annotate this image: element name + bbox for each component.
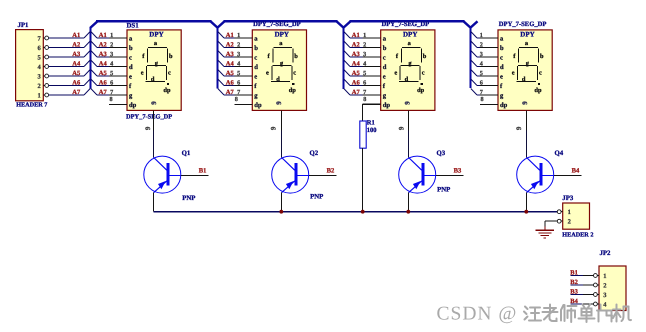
svg-text:6: 6 bbox=[237, 79, 240, 86]
svg-text:A2: A2 bbox=[226, 41, 234, 48]
svg-text:Q4: Q4 bbox=[555, 150, 564, 157]
svg-text:DPY: DPY bbox=[520, 31, 534, 39]
svg-text:6: 6 bbox=[480, 79, 483, 86]
svg-text:A6: A6 bbox=[352, 79, 361, 86]
svg-text:A2: A2 bbox=[72, 41, 80, 48]
svg-text:d: d bbox=[383, 64, 387, 71]
svg-text:A2: A2 bbox=[352, 41, 360, 48]
svg-text:A2: A2 bbox=[99, 41, 107, 48]
svg-text:b: b bbox=[500, 45, 504, 52]
svg-text:3: 3 bbox=[363, 51, 366, 58]
svg-text:A1: A1 bbox=[352, 32, 360, 39]
svg-text:7: 7 bbox=[237, 89, 240, 96]
ground GND bbox=[536, 230, 554, 238]
7-segment display U4 DPY_7-SEG_DP bbox=[471, 21, 552, 131]
svg-text:2: 2 bbox=[110, 41, 113, 48]
display common pin 9 bbox=[280, 110, 282, 130]
svg-text:DPY: DPY bbox=[275, 31, 289, 39]
7-seg digit glyph bbox=[148, 47, 167, 49]
connector JP1 HEADER 7 bbox=[16, 22, 91, 109]
svg-text:DS1: DS1 bbox=[127, 23, 140, 30]
wire JP3 pin2 to ground bbox=[545, 220, 557, 222]
svg-text:1: 1 bbox=[363, 32, 366, 39]
svg-text:1: 1 bbox=[37, 92, 40, 99]
svg-text:e: e bbox=[394, 70, 397, 77]
svg-text:9: 9 bbox=[269, 126, 277, 130]
connector JP3 HEADER 2 bbox=[557, 195, 593, 238]
svg-text:Q3: Q3 bbox=[437, 150, 446, 157]
svg-text:PNP: PNP bbox=[310, 194, 323, 201]
svg-text:3: 3 bbox=[480, 51, 483, 58]
svg-text:dp: dp bbox=[534, 87, 542, 94]
7-seg digit glyph bbox=[273, 47, 292, 49]
svg-text:6: 6 bbox=[363, 79, 366, 86]
svg-text:9: 9 bbox=[275, 101, 283, 105]
svg-text:5: 5 bbox=[110, 70, 113, 77]
svg-text:8: 8 bbox=[363, 96, 366, 103]
svg-text:e: e bbox=[512, 70, 515, 77]
svg-text:3: 3 bbox=[237, 51, 240, 58]
svg-text:1: 1 bbox=[568, 209, 571, 216]
svg-text:A6: A6 bbox=[72, 79, 81, 86]
svg-text:A4: A4 bbox=[226, 60, 235, 67]
svg-text:A3: A3 bbox=[72, 51, 81, 58]
display common pin 9 bbox=[525, 110, 527, 130]
svg-text:DPY: DPY bbox=[149, 31, 163, 39]
svg-text:A7: A7 bbox=[226, 89, 235, 96]
svg-text:b: b bbox=[540, 53, 544, 60]
svg-text:c: c bbox=[500, 54, 503, 61]
svg-text:4: 4 bbox=[480, 60, 483, 67]
svg-text:DPY_7-SEG_DP: DPY_7-SEG_DP bbox=[382, 21, 430, 28]
svg-text:dp: dp bbox=[383, 102, 391, 109]
svg-text:1: 1 bbox=[603, 273, 606, 280]
svg-text:2: 2 bbox=[480, 41, 483, 48]
svg-text:A3: A3 bbox=[99, 51, 108, 58]
svg-text:B2: B2 bbox=[570, 279, 578, 286]
svg-text:8: 8 bbox=[110, 96, 113, 103]
svg-text:A5: A5 bbox=[352, 70, 361, 77]
svg-text:b: b bbox=[129, 45, 133, 52]
watermark hanzi 汪老师单片机 (drawn) bbox=[524, 305, 631, 323]
svg-text:5: 5 bbox=[480, 70, 483, 77]
svg-text:c: c bbox=[254, 54, 257, 61]
svg-text:A4: A4 bbox=[352, 60, 361, 67]
svg-text:c: c bbox=[168, 70, 171, 77]
svg-text:e: e bbox=[500, 73, 503, 80]
junction R1 bbox=[361, 210, 365, 214]
junction Q4 emitter bbox=[524, 210, 528, 214]
svg-text:2: 2 bbox=[37, 83, 40, 90]
svg-text:9: 9 bbox=[521, 101, 529, 105]
svg-text:4: 4 bbox=[237, 60, 240, 67]
display common pin 9 bbox=[407, 110, 409, 130]
svg-text:3: 3 bbox=[110, 51, 113, 58]
svg-text:A4: A4 bbox=[72, 60, 81, 67]
svg-text:2: 2 bbox=[603, 282, 606, 289]
svg-text:1: 1 bbox=[237, 32, 240, 39]
svg-text:B4: B4 bbox=[572, 167, 580, 174]
svg-text:e: e bbox=[141, 70, 144, 77]
svg-text:2: 2 bbox=[568, 219, 571, 226]
svg-text:4: 4 bbox=[363, 60, 366, 67]
7-seg digit glyph bbox=[519, 47, 538, 49]
svg-text:c: c bbox=[539, 70, 542, 77]
svg-text:d: d bbox=[405, 76, 409, 83]
svg-text:dp: dp bbox=[289, 87, 297, 94]
svg-text:b: b bbox=[383, 45, 387, 52]
svg-text:HEADER 7: HEADER 7 bbox=[16, 102, 47, 109]
svg-text:HEADER 2: HEADER 2 bbox=[562, 232, 593, 239]
svg-text:1: 1 bbox=[110, 32, 113, 39]
svg-text:c: c bbox=[129, 54, 132, 61]
svg-text:CSDN @: CSDN @ bbox=[437, 304, 518, 325]
7-segment display DS1 DPY_7-SEG_DP bbox=[91, 23, 181, 131]
junction Q2 emitter bbox=[279, 210, 283, 214]
svg-text:A4: A4 bbox=[99, 60, 108, 67]
svg-text:d: d bbox=[151, 76, 155, 83]
svg-text:4: 4 bbox=[110, 60, 113, 67]
svg-text:Q2: Q2 bbox=[310, 150, 319, 157]
svg-text:A3: A3 bbox=[352, 51, 361, 58]
svg-text:A3: A3 bbox=[226, 51, 235, 58]
svg-text:A5: A5 bbox=[72, 70, 81, 77]
svg-text:DPY_7-SEG_DP: DPY_7-SEG_DP bbox=[253, 21, 301, 28]
svg-text:d: d bbox=[129, 64, 133, 71]
svg-text:JP2: JP2 bbox=[600, 250, 612, 257]
connector JP2 HEADER 4 bbox=[570, 250, 626, 311]
svg-text:B4: B4 bbox=[570, 298, 578, 305]
transistor Q1 PNP bbox=[144, 130, 209, 211]
svg-text:9: 9 bbox=[515, 126, 523, 130]
bus A[1..7] bbox=[89, 28, 91, 89]
svg-text:9: 9 bbox=[150, 101, 158, 105]
svg-text:B3: B3 bbox=[454, 167, 462, 174]
svg-text:6: 6 bbox=[110, 79, 113, 86]
svg-text:e: e bbox=[129, 73, 132, 80]
svg-text:PNP: PNP bbox=[182, 195, 195, 202]
svg-text:7: 7 bbox=[110, 89, 113, 96]
svg-text:d: d bbox=[522, 76, 526, 83]
svg-text:dp: dp bbox=[254, 102, 262, 109]
svg-text:5: 5 bbox=[363, 70, 366, 77]
junction Q3 emitter bbox=[406, 210, 410, 214]
transistor Q2 PNP bbox=[272, 130, 337, 211]
svg-text:JP1: JP1 bbox=[18, 22, 30, 29]
svg-text:100: 100 bbox=[367, 127, 377, 134]
svg-text:B3: B3 bbox=[570, 288, 578, 295]
svg-text:c: c bbox=[422, 70, 425, 77]
svg-text:JP3: JP3 bbox=[562, 195, 574, 202]
svg-text:e: e bbox=[383, 73, 386, 80]
svg-text:7: 7 bbox=[363, 89, 366, 96]
svg-text:8: 8 bbox=[235, 96, 238, 103]
svg-text:A7: A7 bbox=[99, 89, 108, 96]
svg-text:c: c bbox=[293, 70, 296, 77]
svg-text:A1: A1 bbox=[72, 32, 80, 39]
svg-text:A6: A6 bbox=[99, 79, 108, 86]
svg-text:A7: A7 bbox=[72, 89, 81, 96]
svg-text:2: 2 bbox=[237, 41, 240, 48]
resistor R1 100 bbox=[360, 104, 381, 212]
svg-text:e: e bbox=[254, 73, 257, 80]
7-segment display U2 DPY_7-SEG_DP bbox=[218, 21, 307, 131]
svg-text:9: 9 bbox=[404, 101, 412, 105]
wire emitter rail bbox=[153, 211, 558, 213]
svg-text:dp: dp bbox=[163, 87, 171, 94]
svg-text:d: d bbox=[276, 76, 280, 83]
svg-text:R1: R1 bbox=[367, 120, 375, 127]
7-segment display U3 DPY_7-SEG_DP bbox=[344, 21, 435, 131]
svg-text:DPY: DPY bbox=[403, 31, 417, 39]
svg-text:b: b bbox=[254, 45, 258, 52]
svg-text:c: c bbox=[383, 54, 386, 61]
svg-text:d: d bbox=[500, 64, 504, 71]
svg-text:9: 9 bbox=[144, 126, 152, 130]
svg-text:B1: B1 bbox=[199, 167, 207, 174]
svg-text:A5: A5 bbox=[226, 70, 235, 77]
svg-text:dp: dp bbox=[500, 102, 508, 109]
svg-text:b: b bbox=[294, 53, 298, 60]
svg-text:DPY_7-SEG_DP: DPY_7-SEG_DP bbox=[126, 113, 172, 120]
transistor Q4 PNP bbox=[517, 130, 582, 211]
svg-text:A5: A5 bbox=[99, 70, 108, 77]
svg-text:dp: dp bbox=[129, 102, 137, 109]
svg-text:DPY_7-SEG_DP: DPY_7-SEG_DP bbox=[499, 21, 547, 28]
svg-text:9: 9 bbox=[398, 126, 406, 130]
svg-text:e: e bbox=[266, 70, 269, 77]
svg-text:7: 7 bbox=[480, 89, 483, 96]
svg-text:B1: B1 bbox=[570, 269, 578, 276]
svg-text:A6: A6 bbox=[226, 79, 235, 86]
svg-text:d: d bbox=[254, 64, 258, 71]
svg-text:A1: A1 bbox=[99, 32, 107, 39]
svg-text:A7: A7 bbox=[352, 89, 361, 96]
svg-text:b: b bbox=[423, 53, 427, 60]
svg-text:B2: B2 bbox=[327, 167, 335, 174]
svg-text:1: 1 bbox=[480, 32, 483, 39]
svg-text:5: 5 bbox=[237, 70, 240, 77]
svg-text:PNP: PNP bbox=[437, 186, 450, 193]
svg-text:8: 8 bbox=[481, 96, 484, 103]
svg-text:Q1: Q1 bbox=[182, 150, 191, 157]
svg-text:2: 2 bbox=[363, 41, 366, 48]
svg-text:A1: A1 bbox=[226, 32, 234, 39]
svg-text:dp: dp bbox=[417, 87, 425, 94]
display common pin 9 bbox=[152, 110, 154, 130]
svg-text:b: b bbox=[169, 53, 173, 60]
7-seg digit glyph bbox=[402, 47, 421, 49]
transistor Q3 PNP bbox=[399, 130, 464, 211]
